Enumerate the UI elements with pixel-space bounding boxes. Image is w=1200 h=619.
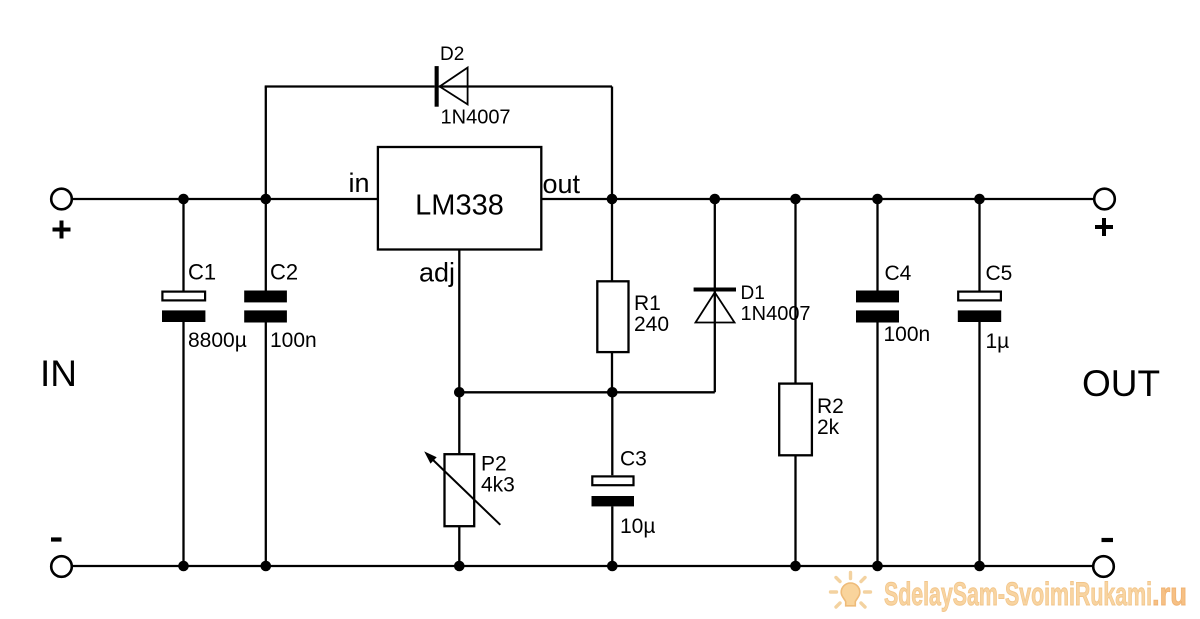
svg-text:D2: D2 xyxy=(440,44,464,65)
svg-text:R1: R1 xyxy=(634,292,661,315)
terminal IN- xyxy=(51,556,72,577)
node adj-P2 xyxy=(454,387,465,398)
svg-text:adj: adj xyxy=(419,258,455,288)
watermark lightbulb icon xyxy=(831,573,871,608)
wire C1 bottom lead xyxy=(182,322,184,566)
svg-text:C4: C4 xyxy=(885,262,912,285)
svg-text:240: 240 xyxy=(634,313,669,336)
C4 plate top (filled) xyxy=(856,291,899,303)
resistor R1 xyxy=(597,199,669,392)
svg-text:C2: C2 xyxy=(270,260,298,285)
svg-text:100n: 100n xyxy=(884,323,931,346)
wire C2 top lead xyxy=(265,199,267,291)
diode D2 triangle xyxy=(440,68,468,105)
watermark bulb body xyxy=(841,583,860,606)
svg-text:R2: R2 xyxy=(817,395,844,418)
node gnd-C4 xyxy=(872,561,883,572)
C1 plus plate (hollow) xyxy=(162,292,205,301)
capacitor C3 xyxy=(592,392,656,566)
wire adj lead xyxy=(458,250,460,393)
diode D1 xyxy=(694,199,811,392)
node out-D1 xyxy=(710,194,721,205)
node gnd-R2 xyxy=(790,561,801,572)
svg-text:in: in xyxy=(348,168,369,198)
C5 minus plate (filled) xyxy=(958,310,1001,322)
wire adj horizontal xyxy=(459,391,715,393)
node out-C5 xyxy=(974,194,985,205)
minus sign IN xyxy=(51,537,62,541)
svg-text:1µ: 1µ xyxy=(986,330,1010,353)
svg-text:P2: P2 xyxy=(481,453,507,476)
node input-C1 xyxy=(178,194,189,205)
wire C4 bottom lead xyxy=(876,322,878,566)
wire D2 left segment xyxy=(265,85,435,87)
wire top rail right (LM338 out to OUT+) xyxy=(541,198,1094,200)
wire D2 right segment xyxy=(439,85,612,87)
C4 plate bottom (filled) xyxy=(856,310,899,322)
wire C5 top lead xyxy=(978,199,980,291)
C2 plate top (filled) xyxy=(244,291,287,303)
node out-C4 xyxy=(872,194,883,205)
svg-text:OUT: OUT xyxy=(1082,363,1160,404)
svg-text:C3: C3 xyxy=(620,448,647,471)
svg-text:C1: C1 xyxy=(188,260,216,285)
svg-text:1N4007: 1N4007 xyxy=(741,303,811,325)
wire P2 bottom lead xyxy=(458,526,460,566)
svg-text:1N4007: 1N4007 xyxy=(441,107,511,129)
node out-R2 xyxy=(790,194,801,205)
terminal OUT- xyxy=(1093,556,1114,577)
wire R2 bottom lead xyxy=(794,455,796,566)
P2 wiper arrow line xyxy=(432,459,501,525)
plus sign IN xyxy=(53,221,71,239)
node gnd-P2 xyxy=(454,561,465,572)
wire C4 top lead xyxy=(876,199,878,291)
capacitor C2 xyxy=(244,199,317,566)
wire C3 bottom lead xyxy=(611,506,613,566)
svg-text:out: out xyxy=(543,169,581,199)
capacitor C5 xyxy=(958,199,1013,566)
svg-text:8800µ: 8800µ xyxy=(188,329,247,352)
svg-text:IN: IN xyxy=(40,353,77,394)
terminal IN+ xyxy=(51,189,72,210)
diode D1 triangle xyxy=(696,292,735,322)
svg-text:C5: C5 xyxy=(986,262,1013,285)
svg-text:SdelaySam-SvoimiRukami: SdelaySam-SvoimiRukami xyxy=(884,576,1152,612)
svg-text:2k: 2k xyxy=(817,416,840,439)
op-amp-box regulator U1 LM338 xyxy=(348,147,580,288)
terminal OUT+ xyxy=(1094,189,1115,210)
C1 minus plate (filled) xyxy=(162,310,205,322)
node gnd-C2 xyxy=(261,561,272,572)
node gnd-C5 xyxy=(974,561,985,572)
wire D1 bottom lead xyxy=(714,291,716,392)
C5 plus plate (hollow) xyxy=(958,292,1001,301)
potentiometer P2 xyxy=(424,392,515,566)
wire R2 top lead xyxy=(794,199,796,384)
wire C5 bottom lead xyxy=(978,322,980,566)
C3 minus plate (filled) xyxy=(592,496,635,506)
wire top rail left (IN+ to LM338 in) xyxy=(72,198,378,200)
minus sign OUT xyxy=(1102,538,1114,542)
node input-C2/D2 xyxy=(261,194,272,205)
svg-text:4k3: 4k3 xyxy=(481,474,515,497)
wire C1 top lead xyxy=(182,199,184,291)
wire D2 riser to out node xyxy=(611,87,613,200)
svg-text:10µ: 10µ xyxy=(620,515,655,538)
wire C2 bottom lead xyxy=(265,322,267,566)
diode D2 cathode bar xyxy=(435,66,439,107)
svg-text:.ru: .ru xyxy=(1152,576,1187,612)
resistor R2 xyxy=(779,199,844,566)
C2 plate bottom (filled) xyxy=(244,310,287,322)
svg-text:LM338: LM338 xyxy=(415,190,504,222)
diode D2 branch xyxy=(265,44,612,199)
wire C3 top lead xyxy=(611,392,613,475)
wire R1 bottom lead xyxy=(611,352,613,392)
wire D2 riser from input node xyxy=(265,87,267,200)
wire P2 top lead xyxy=(458,392,460,454)
diode D1 cathode bar xyxy=(694,288,736,292)
P2 wiper arrowhead xyxy=(424,451,437,463)
wire bottom rail xyxy=(72,565,1093,567)
wire R1 top lead xyxy=(611,199,613,281)
capacitor C4 xyxy=(856,199,930,566)
node out-D2/R1 xyxy=(607,194,618,205)
C3 plus plate (hollow) xyxy=(592,476,633,485)
capacitor C1 xyxy=(162,199,247,566)
svg-text:100n: 100n xyxy=(270,329,317,352)
node gnd-C1 xyxy=(178,561,189,572)
node gnd-C3 xyxy=(607,561,618,572)
svg-text:D1: D1 xyxy=(741,283,765,304)
plus sign OUT xyxy=(1095,218,1113,236)
node adj-R1/C3 xyxy=(607,387,618,398)
wire D1 top lead xyxy=(714,199,716,290)
